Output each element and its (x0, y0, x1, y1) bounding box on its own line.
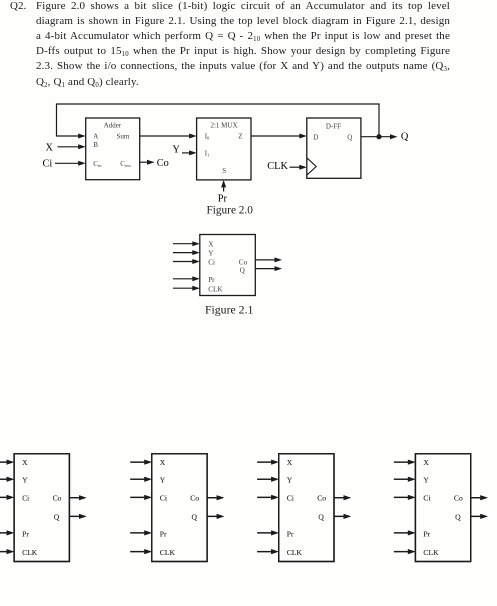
svg-text:Pr: Pr (208, 276, 215, 284)
block 3 input wire Ci (257, 495, 279, 500)
accumulator slice block 2 (Figure 2.3) (152, 454, 207, 562)
svg-text:Q: Q (401, 131, 409, 142)
block 3 pin label Ci (287, 494, 294, 503)
mux block U2 (197, 118, 251, 180)
svg-text:Q: Q (192, 512, 198, 521)
block 4 input wire X (394, 460, 416, 465)
svg-text:Ci: Ci (43, 159, 53, 170)
block 3 pin label Q (318, 512, 324, 521)
block 3 pin label Pr (287, 529, 294, 538)
block 3 output wire Q (334, 514, 351, 519)
svg-text:I1: I1 (205, 149, 210, 157)
block 2 pin label Ci (160, 494, 167, 503)
block 2 input wire X (130, 460, 152, 465)
svg-text:CLK: CLK (423, 548, 439, 557)
block 2 input wire Ci (130, 495, 152, 500)
svg-text:Figure 2.0: Figure 2.0 (206, 205, 253, 217)
svg-text:Pr: Pr (423, 529, 430, 538)
feedback wire Q to adder A (57, 104, 380, 139)
block 4 pin label Y (423, 475, 429, 484)
svg-text:Co: Co (157, 158, 169, 169)
block 4 input wire CLK (394, 549, 416, 554)
block 4 input wire Y (394, 477, 416, 482)
svg-text:Z: Z (238, 132, 242, 140)
mux pin label S (222, 167, 226, 175)
svg-text:Co: Co (317, 494, 326, 503)
block 4 pin label Ci (423, 494, 430, 503)
svg-text:Cin: Cin (93, 160, 102, 168)
input label Ci (43, 159, 53, 170)
block 3 pin label Co (317, 494, 326, 503)
wire Y to mux I1 (182, 150, 197, 155)
accumulator slice block 3 (Figure 2.3) (279, 454, 334, 562)
block 3 pin label Ci (287, 494, 294, 503)
svg-text:Co: Co (239, 258, 248, 266)
block 3 pin label Pr (287, 529, 294, 538)
svg-text:Q: Q (318, 512, 324, 521)
svg-text:Cout: Cout (120, 160, 131, 168)
output label Q (401, 131, 409, 142)
svg-text:Pr: Pr (22, 529, 29, 538)
svg-text:B: B (93, 141, 98, 149)
fig2.1 pin label X (208, 241, 214, 249)
svg-text:Adder: Adder (104, 122, 122, 130)
svg-text:CLK: CLK (208, 286, 223, 294)
block 4 input wire Ci (394, 495, 416, 500)
block 2 pin label Y (160, 475, 166, 484)
block 2 pin label Y (160, 475, 166, 484)
svg-text:Ci: Ci (208, 258, 215, 266)
block 2 pin label Co (190, 494, 199, 503)
fig2.1 input wire Y (173, 250, 200, 255)
block 4 pin label Co (454, 494, 463, 503)
fig2.1 output wire Co (255, 257, 282, 262)
wire Ci to adder Cin (55, 161, 86, 166)
svg-text:I0: I0 (205, 132, 210, 140)
block 4 pin label Q (455, 512, 461, 521)
block 1 pin label Pr (22, 529, 29, 538)
block 3 input wire CLK (257, 549, 279, 554)
block 4 pin label X (423, 458, 429, 467)
block 2 pin label Pr (160, 529, 167, 538)
block 1 input wire CLK (0, 549, 14, 554)
block 3 pin label Y (287, 475, 293, 484)
block 2 output wire Co (207, 495, 224, 500)
accumulator slice block 1 (Figure 2.3) (14, 454, 69, 562)
block 3 input wire Y (257, 477, 279, 482)
input label Y (173, 145, 181, 156)
block 4 pin label CLK (423, 548, 439, 557)
block 1 pin label X (22, 458, 28, 467)
wire X to adder B (58, 144, 86, 149)
block 2 input wire Pr (130, 530, 152, 535)
svg-text:Pr: Pr (287, 529, 294, 538)
svg-text:X: X (46, 143, 54, 154)
block 2 input wire CLK (130, 549, 152, 554)
mux pin label I0 (205, 132, 210, 140)
block 1 pin label Co (53, 494, 62, 503)
block 3 pin label CLK (287, 548, 303, 557)
svg-text:S: S (222, 167, 226, 175)
svg-text:Ci: Ci (423, 494, 430, 503)
question number (10, 0, 26, 12)
fig2.1 pin label Pr (208, 276, 215, 284)
accumulator slice block (Figure 2.1) (200, 235, 256, 296)
block 4 input wire Pr (394, 530, 416, 535)
mux label "2:1 MUX" (210, 122, 237, 130)
paragraph line 5 (36, 60, 450, 72)
block 2 input wire X (130, 460, 152, 465)
block 4 pin label Ci (423, 494, 430, 503)
block 3 input wire CLK (257, 549, 279, 554)
svg-text:Y: Y (287, 475, 293, 484)
block 3 output wire Co (334, 495, 351, 500)
block 3 pin label Y (287, 475, 293, 484)
block 4 pin label Q (455, 512, 461, 521)
dff pin label Q (347, 134, 352, 142)
block 4 output wire Q (471, 514, 488, 519)
adder pin label Sum (117, 132, 130, 140)
svg-text:A: A (93, 132, 98, 140)
accumulator slice block 3 (Figure 2.3) (279, 454, 334, 562)
accumulator slice block 4 (Figure 2.3) (415, 454, 470, 562)
block 1 input wire Pr (0, 530, 14, 535)
paragraph line 3 (36, 30, 450, 42)
svg-text:X: X (160, 458, 166, 467)
block 3 input wire Ci (257, 495, 279, 500)
block 2 pin label Q (192, 512, 198, 521)
svg-text:X: X (22, 458, 28, 467)
svg-text:X: X (423, 458, 429, 467)
block 4 input wire X (394, 460, 416, 465)
block 4 pin label Y (423, 475, 429, 484)
svg-text:Y: Y (173, 145, 181, 156)
block 2 pin label Co (190, 494, 199, 503)
block 3 input wire X (257, 460, 279, 465)
block 3 pin label Co (317, 494, 326, 503)
fig2.1 pin label CLK (208, 286, 223, 294)
block 2 pin label X (160, 458, 166, 467)
block 1 input wire X (0, 460, 14, 465)
block 3 pin label CLK (287, 548, 303, 557)
wire dff Q to output Q (361, 134, 398, 139)
svg-text:Pr: Pr (218, 193, 228, 204)
block 2 input wire Y (130, 477, 152, 482)
block 4 input wire Pr (394, 530, 416, 535)
paragraph line 6 (36, 76, 450, 88)
fig2.1 input wire X (173, 241, 200, 246)
block 1 pin label Ci (22, 494, 29, 503)
adder pin label A (93, 132, 98, 140)
block 1 input wire X (0, 460, 14, 465)
block 4 pin label Pr (423, 529, 430, 538)
fig2.1 pin label Co (239, 258, 248, 266)
block 1 pin label X (22, 458, 28, 467)
block 1 pin label Ci (22, 494, 29, 503)
svg-text:Q: Q (240, 267, 246, 275)
block 1 output wire Q (69, 514, 86, 519)
junction node on Q output (376, 134, 381, 139)
block 1 pin label Q (54, 512, 60, 521)
svg-text:CLK: CLK (160, 548, 176, 557)
svg-text:Pr: Pr (160, 529, 167, 538)
block 2 pin label Ci (160, 494, 167, 503)
svg-text:Co: Co (190, 494, 199, 503)
block 4 pin label CLK (423, 548, 439, 557)
mux pin label I1 (205, 149, 210, 157)
block 3 pin label Q (318, 512, 324, 521)
block 2 input wire CLK (130, 549, 152, 554)
caption Figure 2.1 (205, 302, 254, 316)
block 1 output wire Co (69, 495, 86, 500)
block 4 input wire Y (394, 477, 416, 482)
input label Pr (218, 193, 228, 204)
block 1 pin label Co (53, 494, 62, 503)
output label Co (157, 158, 169, 169)
svg-text:2:1 MUX: 2:1 MUX (210, 122, 237, 130)
block 1 input wire Y (0, 477, 14, 482)
block 3 pin label X (287, 458, 293, 467)
svg-text:Y: Y (160, 475, 166, 484)
dff clock edge triangle (307, 158, 316, 175)
svg-text:Figure 2.1: Figure 2.1 (205, 302, 254, 316)
accumulator slice block 2 (Figure 2.3) (152, 454, 207, 562)
block 2 output wire Q (207, 514, 224, 519)
block 3 output wire Co (334, 495, 351, 500)
svg-text:Sum: Sum (117, 132, 130, 140)
block 1 pin label Y (22, 475, 28, 484)
fig2.1 input wire Ci (173, 259, 200, 264)
block 1 input wire Pr (0, 530, 14, 535)
block 4 output wire Co (471, 495, 488, 500)
adder label "Adder" (104, 122, 122, 130)
block 2 pin label CLK (160, 548, 176, 557)
block 2 pin label Q (192, 512, 198, 521)
caption Figure 2.0 (206, 205, 253, 217)
adder pin label Cin (93, 160, 102, 168)
block 1 pin label Q (54, 512, 60, 521)
svg-text:CLK: CLK (287, 548, 303, 557)
svg-text:X: X (208, 241, 214, 249)
fig2.1 input wire CLK (173, 286, 200, 291)
block 2 output wire Q (207, 514, 224, 519)
svg-text:Co: Co (454, 494, 463, 503)
paragraph line 1 (36, 0, 450, 12)
fig2.1 output wire Q (255, 266, 282, 271)
block 2 pin label Pr (160, 529, 167, 538)
svg-text:Y: Y (423, 475, 429, 484)
wire Sum to mux I0 (140, 134, 197, 139)
block 1 output wire Q (69, 514, 86, 519)
block 4 input wire Ci (394, 495, 416, 500)
svg-text:D-FF: D-FF (326, 122, 341, 130)
paragraph line 4 (36, 45, 450, 57)
d-flipflop block U3 (307, 118, 361, 178)
block 4 pin label X (423, 458, 429, 467)
mux pin label Z (238, 132, 242, 140)
adder pin label B (93, 141, 98, 149)
block 1 pin label Y (22, 475, 28, 484)
block 4 output wire Q (471, 514, 488, 519)
block 3 input wire Pr (257, 530, 279, 535)
fig2.1 pin label Q (240, 267, 246, 275)
block 2 pin label CLK (160, 548, 176, 557)
adder block U1 (86, 118, 140, 180)
block 3 input wire Y (257, 477, 279, 482)
accumulator slice block 4 (Figure 2.3) (415, 454, 470, 562)
svg-text:Ci: Ci (160, 494, 167, 503)
svg-text:Y: Y (22, 475, 28, 484)
svg-text:Ci: Ci (22, 494, 29, 503)
svg-text:CLK: CLK (267, 161, 288, 172)
block 4 input wire CLK (394, 549, 416, 554)
svg-text:Y: Y (208, 250, 214, 258)
input label X (46, 143, 54, 154)
svg-text:Q: Q (347, 134, 352, 142)
block 2 output wire Co (207, 495, 224, 500)
svg-text:Q: Q (455, 512, 461, 521)
block 1 input wire Ci (0, 495, 14, 500)
block 3 input wire Pr (257, 530, 279, 535)
svg-text:X: X (287, 458, 293, 467)
block 1 input wire Y (0, 477, 14, 482)
wire Z to dff D (251, 134, 307, 139)
svg-text:Q: Q (54, 512, 60, 521)
block 2 input wire Y (130, 477, 152, 482)
block 4 pin label Co (454, 494, 463, 503)
block 1 pin label Pr (22, 529, 29, 538)
wire CLK to dff clock (290, 165, 307, 170)
block 2 input wire Ci (130, 495, 152, 500)
adder pin label Cout (120, 160, 131, 168)
accumulator slice block 1 (Figure 2.3) (14, 454, 69, 562)
dff label "D-FF" (326, 122, 341, 130)
block 1 pin label CLK (22, 548, 38, 557)
svg-text:Co: Co (53, 494, 62, 503)
fig2.1 pin label Ci (208, 258, 215, 266)
block 1 input wire Ci (0, 495, 14, 500)
block 3 output wire Q (334, 514, 351, 519)
block 1 pin label CLK (22, 548, 38, 557)
dff pin label D (313, 134, 318, 142)
input label CLK (267, 161, 288, 172)
fig2.1 pin label Y (208, 250, 214, 258)
paragraph line 2 (36, 15, 450, 27)
wire Cout to Co (140, 160, 155, 165)
block 1 output wire Co (69, 495, 86, 500)
block 2 pin label X (160, 458, 166, 467)
wire Pr to mux S (221, 180, 226, 192)
block 3 input wire X (257, 460, 279, 465)
block 3 pin label X (287, 458, 293, 467)
svg-text:CLK: CLK (22, 548, 38, 557)
block 1 input wire CLK (0, 549, 14, 554)
block 2 input wire Pr (130, 530, 152, 535)
svg-text:D: D (313, 134, 318, 142)
fig2.1 input wire Pr (173, 276, 200, 281)
block 4 output wire Co (471, 495, 488, 500)
block 4 pin label Pr (423, 529, 430, 538)
svg-text:Ci: Ci (287, 494, 294, 503)
